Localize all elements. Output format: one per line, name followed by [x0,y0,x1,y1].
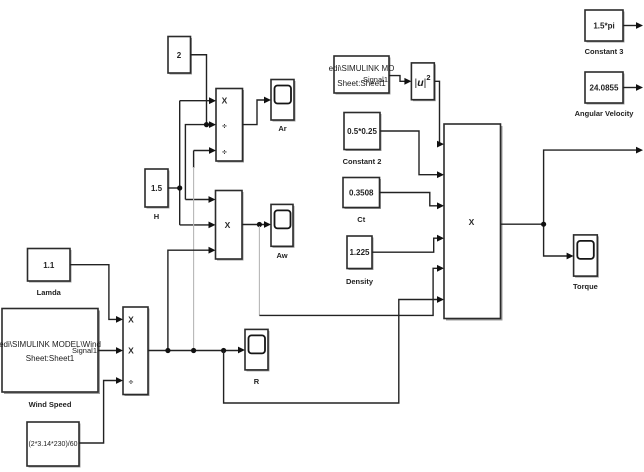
svg-text:X: X [469,217,475,227]
wire |u|^2 to P4 input 1 [434,81,444,147]
svg-text:Lamda: Lamda [37,288,62,297]
svg-text:(2*3.14*230)/60: (2*3.14*230)/60 [28,441,77,448]
scope Aw [271,204,295,260]
wire from R net up to P1 input 3 (faint) [194,147,216,350]
product P3 (lambda*V/omega) [123,307,150,396]
wire Signal 1 source to |u|^2 [389,76,411,85]
junction dot at H output [177,185,182,190]
svg-text:X: X [222,96,228,106]
svg-text:X: X [225,220,231,230]
constant block "2" [168,37,192,75]
junction dot on P4 output [541,222,546,227]
wire P4 output to right edge and Torque [501,147,644,260]
svg-text:0.3508: 0.3508 [349,189,374,198]
wire from Aw junction down and right to P4 input 5 [259,226,444,315]
constant Constant 2 value 0.5*0.25 [343,113,382,167]
junction dots on R wire [165,348,170,353]
svg-text:÷: ÷ [129,377,134,387]
svg-text:2: 2 [177,51,182,60]
product P4 (big multiply) [444,124,503,321]
wire Ct to P4 input 3 [380,193,445,210]
wire Constant 3 to right edge [623,22,643,29]
svg-text:÷: ÷ [222,146,227,156]
wire from H to P1 input 1 and P2 input 2 [168,97,216,228]
svg-text:H: H [154,212,159,221]
svg-text:Sheet:Sheet1: Sheet:Sheet1 [26,354,75,363]
svg-text:Torque: Torque [573,282,598,291]
svg-text:Wind Speed: Wind Speed [29,400,72,409]
wire from R net up to P2 input 3 [168,247,216,351]
source block Wind Speed (From Spreadsheet) [0,309,101,410]
svg-text:24.0855: 24.0855 [590,84,619,93]
constant Constant 3 value 1.5*pi [585,10,625,56]
wire Density to P4 input 4 [372,235,444,252]
wire from R net down around to P4 input 6 [224,296,444,403]
scope R [245,329,270,386]
wire from constant 2 down to P1 divide input [191,55,207,125]
svg-text:X: X [128,314,134,324]
constant Angular Velocity value 24.0855 [575,72,635,118]
svg-text:edi\SIMULINK MO: edi\SIMULINK MO [329,64,395,73]
svg-text:1.5*pi: 1.5*pi [593,22,614,31]
svg-text:Ct: Ct [357,215,365,224]
svg-text:Constant 2: Constant 2 [343,157,382,166]
svg-text:Signal1: Signal1 [72,346,97,355]
svg-text:X: X [128,346,134,356]
scope Ar [271,80,296,134]
svg-text:Ar: Ar [278,124,286,133]
constant H value 1.5 [145,169,170,221]
wire P3 output to scope R [148,347,245,354]
svg-text:1.1: 1.1 [43,261,55,270]
wire P2 output to scope Aw [242,221,271,228]
svg-text:Signal1: Signal1 [363,75,388,84]
math block |u|^2 [411,63,435,101]
svg-text:1.225: 1.225 [349,248,370,257]
constant Density value 1.225 [346,236,374,286]
constant (2*3.14*230)/60 [27,422,81,468]
source block Signal 1 (From Spreadsheet) [329,56,395,95]
wire Constant 2 to P4 input 2 [380,131,444,178]
svg-text:R: R [254,377,260,386]
wire P1 output to scope Ar [243,97,272,125]
constant Ct value 0.3508 [343,178,381,225]
svg-text:Aw: Aw [276,251,287,260]
svg-text:1.5: 1.5 [151,184,163,193]
svg-text:Angular Velocity: Angular Velocity [575,109,635,118]
constant Lamda value 1.1 [28,249,72,298]
svg-text:Constant 3: Constant 3 [585,47,624,56]
junction dot on Aw wire [257,222,262,227]
scope Torque [573,235,599,291]
wire rpm constant to P3 input 3 [79,377,123,443]
product P2 (X) [216,191,244,261]
junction dot on P1 input2 wire [204,122,209,127]
wire Angular Velocity to right edge [623,84,643,91]
wire into P1 input 2 and branch down to P2 input 1 [185,121,216,203]
svg-text:÷: ÷ [222,121,227,131]
wire Lamda to P3 input 1 [70,265,123,323]
svg-text:0.5*0.25: 0.5*0.25 [347,127,377,136]
product P1 (X, div, div) [216,89,244,163]
wire Wind Speed to P3 input 2 [98,347,123,354]
svg-text:Density: Density [346,277,374,286]
